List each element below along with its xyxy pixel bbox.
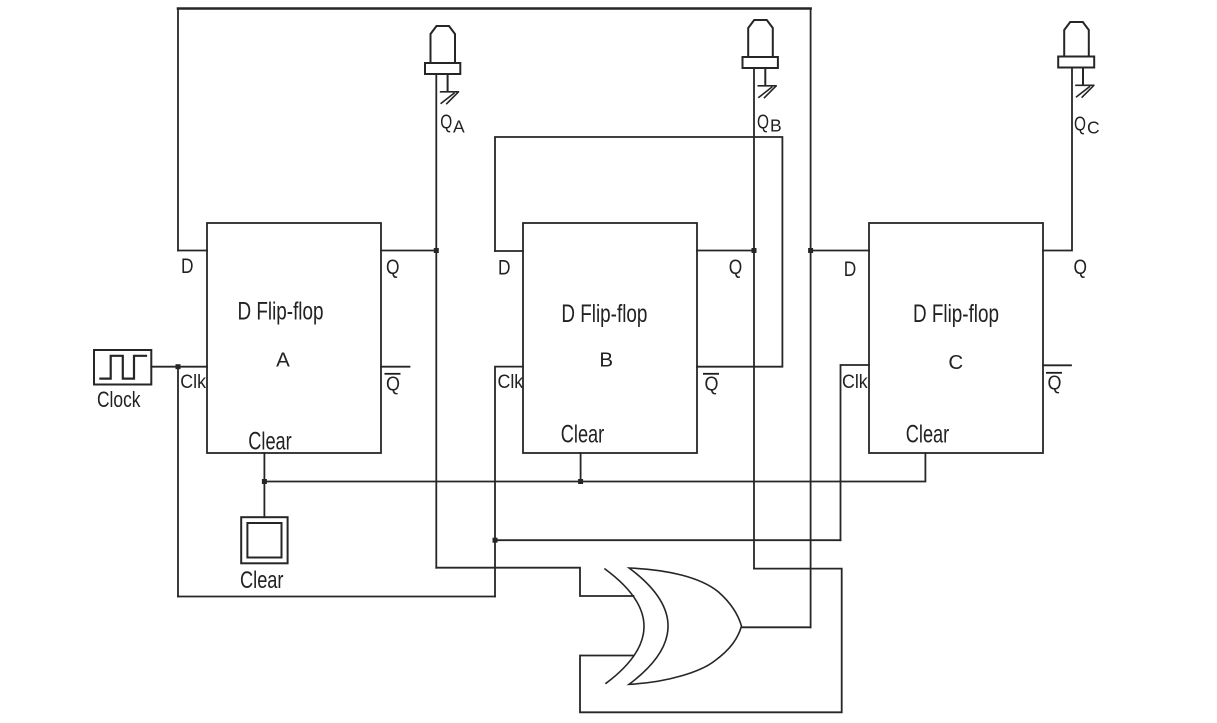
node QA junction (434, 248, 439, 253)
LED D3 body (1064, 22, 1089, 57)
svg-text:Clear: Clear (240, 568, 284, 594)
svg-text:Q: Q (1074, 256, 1088, 279)
svg-text:Clk: Clk (180, 372, 206, 393)
LED D1 body (431, 26, 456, 63)
wire XOR output riser (810, 9, 812, 628)
node QB junction (752, 248, 757, 253)
LED D3 flange (1058, 57, 1094, 68)
LED D1 cathode leg (447, 74, 449, 92)
wire Q output of C (1043, 68, 1072, 251)
clock source box (94, 350, 151, 385)
svg-text:A: A (453, 116, 465, 136)
svg-text:Clock: Clock (97, 387, 141, 412)
svg-text:Clear: Clear (248, 428, 292, 456)
svg-text:Q: Q (705, 373, 719, 396)
stub Qbar of C (1043, 364, 1071, 366)
wire D input of A (178, 250, 207, 252)
push-button Clear inner (247, 523, 281, 558)
svg-text:C: C (948, 351, 963, 374)
svg-text:D Flip-flop: D Flip-flop (238, 298, 324, 326)
wire QA vertical (435, 74, 437, 568)
LED D3 cathode leg (1082, 68, 1084, 86)
wire clear button lead (263, 482, 265, 518)
svg-text:D: D (498, 257, 511, 280)
svg-text:D: D (844, 258, 857, 281)
wire QA to XOR jog (436, 568, 633, 596)
svg-text:B: B (599, 349, 613, 372)
LED D2 body (748, 20, 773, 57)
node DC junction (808, 248, 813, 253)
flip-flop B box (523, 223, 697, 453)
wire D input of B (495, 250, 523, 252)
push-button Clear outer (241, 517, 287, 563)
svg-text:Q: Q (386, 373, 400, 396)
wire D loop of B (495, 137, 782, 367)
svg-text:Clk: Clk (498, 372, 524, 393)
flip-flop A box (207, 223, 381, 453)
svg-text:Q: Q (1048, 372, 1062, 395)
svg-text:C: C (1087, 118, 1100, 138)
svg-text:Q: Q (757, 111, 769, 133)
wire D input of C (811, 250, 869, 252)
wire clock branch to C (495, 539, 841, 541)
node clock junction (176, 364, 181, 369)
wire clock riser to C (841, 365, 870, 540)
ground for D3 (1076, 85, 1094, 97)
flip-flop C box (869, 223, 1043, 453)
wire Q output of A (381, 250, 436, 252)
svg-text:D Flip-flop: D Flip-flop (913, 300, 999, 328)
wire QB route to XOR (580, 569, 842, 713)
LED D2 flange (743, 57, 778, 68)
clock waveform (100, 356, 146, 379)
stub Qbar of A (381, 366, 410, 368)
svg-text:A: A (276, 349, 290, 372)
svg-text:Q: Q (1074, 114, 1086, 136)
wire XOR output horizontal (742, 626, 811, 628)
ground for D2 (758, 86, 776, 98)
node clear A junction (262, 479, 267, 484)
wire feedback top (178, 7, 811, 10)
wire clock riser to B (495, 367, 523, 597)
svg-text:D Flip-flop: D Flip-flop (561, 300, 647, 328)
wire Q output of B (697, 250, 754, 252)
svg-text:Q: Q (386, 256, 400, 279)
svg-text:Clear: Clear (906, 421, 950, 449)
svg-text:Clk: Clk (842, 372, 868, 393)
wire clear net (264, 453, 925, 482)
svg-text:Q: Q (440, 112, 452, 134)
LED D1 flange (425, 63, 460, 74)
LED D2 cathode leg (764, 68, 766, 86)
wire feedback left vertical (177, 9, 179, 251)
svg-text:Clear: Clear (561, 421, 605, 449)
node clear B junction (578, 479, 583, 484)
wire clock bottom run (178, 596, 495, 598)
wire clear B pin (580, 453, 582, 482)
XOR gate U4 (605, 569, 644, 683)
wire clock down (177, 367, 179, 597)
wire QB vertical (753, 68, 755, 569)
svg-text:B: B (770, 116, 782, 136)
node clock branch junction (493, 538, 498, 543)
svg-text:Q: Q (729, 256, 743, 279)
ground for D1 (441, 92, 459, 104)
svg-text:D: D (181, 255, 194, 278)
wire clock output (151, 366, 207, 368)
